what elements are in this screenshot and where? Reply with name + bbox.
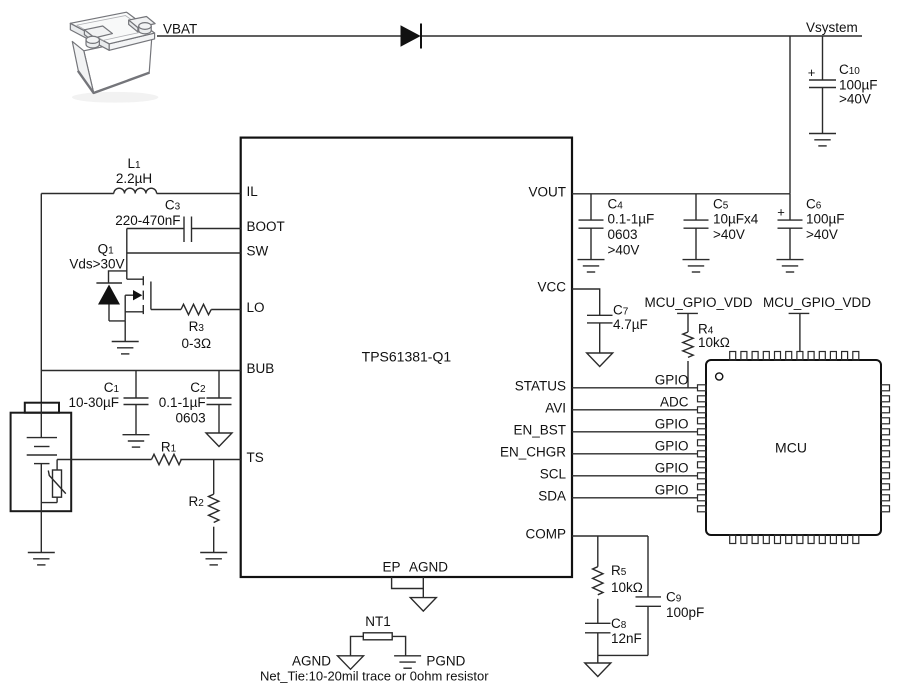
svg-text:SDA: SDA bbox=[538, 488, 566, 503]
wire SCL-GPIO bbox=[572, 475, 698, 477]
resistor R1 bbox=[57, 454, 241, 464]
transistor Q1 (N-MOSFET with body diode) bbox=[109, 271, 151, 342]
wire diode cathode to Vsystem bbox=[422, 35, 862, 37]
capacitor C8 bbox=[585, 623, 611, 655]
svg-text:PGND: PGND bbox=[426, 654, 465, 669]
wire EN_CHGR-GPIO bbox=[572, 453, 698, 455]
battery cell plates bbox=[27, 403, 57, 553]
svg-text:VBAT: VBAT bbox=[163, 22, 197, 37]
resistor R2 bbox=[209, 460, 219, 553]
ground AGND (NT1 left) bbox=[338, 656, 364, 670]
battery pack BT1 with thermistor bbox=[11, 403, 72, 512]
svg-text:COMP: COMP bbox=[526, 527, 567, 542]
ground AGND (COMP network) bbox=[585, 663, 611, 677]
svg-text:4.7µF: 4.7µF bbox=[613, 317, 648, 332]
capacitor C10 bbox=[809, 36, 836, 134]
svg-text:LO: LO bbox=[247, 300, 265, 315]
ground AGND (EP) bbox=[410, 598, 436, 612]
svg-text:10µFx4: 10µFx4 bbox=[713, 212, 759, 227]
wire left rail (battery+ to L1/BUB) bbox=[40, 194, 42, 404]
svg-text:100pF: 100pF bbox=[666, 605, 704, 620]
svg-text:10kΩ: 10kΩ bbox=[698, 335, 730, 350]
MCU top pins bbox=[730, 352, 859, 361]
ground (battery) bbox=[28, 553, 55, 565]
svg-text:SCL: SCL bbox=[540, 466, 567, 481]
MCU pin-1 marker bbox=[716, 373, 723, 380]
svg-text:SW: SW bbox=[247, 244, 269, 259]
svg-text:MCU_GPIO_VDD: MCU_GPIO_VDD bbox=[644, 295, 752, 310]
wire VCC bbox=[572, 289, 600, 315]
ground (Q1 source) bbox=[112, 342, 139, 354]
svg-text:>40V: >40V bbox=[608, 243, 640, 258]
svg-text:GPIO: GPIO bbox=[655, 483, 689, 498]
ground PGND (NT1 right) bbox=[394, 656, 421, 668]
wire SW net rail bbox=[126, 229, 128, 280]
capacitor C9 bbox=[636, 536, 662, 655]
svg-text:BUB: BUB bbox=[247, 361, 275, 376]
wire EN_BST-GPIO bbox=[572, 431, 698, 433]
svg-text:Vsystem: Vsystem bbox=[806, 20, 858, 35]
svg-text:0603: 0603 bbox=[176, 410, 206, 425]
svg-text:>40V: >40V bbox=[713, 227, 745, 242]
MCU right pins bbox=[881, 385, 890, 512]
battery icon (car battery, 3D) bbox=[70, 12, 158, 103]
svg-text:10-30µF: 10-30µF bbox=[68, 395, 119, 410]
svg-text:AGND: AGND bbox=[409, 560, 448, 575]
svg-text:BOOT: BOOT bbox=[247, 219, 285, 234]
capacitor C3 (BOOT-SW) bbox=[127, 217, 241, 243]
resistor R4 bbox=[683, 313, 693, 387]
svg-text:EN_CHGR: EN_CHGR bbox=[500, 444, 566, 459]
svg-text:>40V: >40V bbox=[806, 227, 838, 242]
wire Vsystem drop to VOUT rail bbox=[789, 36, 791, 194]
svg-text:2.2µH: 2.2µH bbox=[116, 171, 152, 186]
MCU body bbox=[706, 360, 881, 535]
ground AGND (C7) bbox=[587, 353, 613, 367]
svg-text:0.1-1µF: 0.1-1µF bbox=[159, 395, 206, 410]
ground AGND (C2) bbox=[206, 433, 232, 447]
ground (C10) bbox=[809, 134, 836, 146]
MCU bottom pins bbox=[730, 535, 859, 544]
svg-text:GPIO: GPIO bbox=[655, 417, 689, 432]
svg-text:GPIO: GPIO bbox=[655, 373, 689, 388]
IC U1 TPS61381-Q1 box bbox=[241, 138, 572, 577]
svg-text:220-470nF: 220-470nF bbox=[115, 213, 180, 228]
resistor R5 bbox=[593, 536, 603, 623]
wire EP/AGND tie bbox=[392, 577, 424, 598]
svg-text:+: + bbox=[808, 65, 816, 80]
svg-text:0-3Ω: 0-3Ω bbox=[181, 336, 211, 351]
resistor R3 bbox=[151, 304, 241, 314]
capacitor C4 bbox=[579, 194, 604, 260]
svg-text:MCU: MCU bbox=[775, 439, 807, 455]
wire SW pin bbox=[127, 252, 241, 254]
svg-text:AVI: AVI bbox=[545, 400, 566, 415]
ground (C6) bbox=[777, 260, 804, 272]
svg-text:0.1-1µF: 0.1-1µF bbox=[608, 212, 655, 227]
wire VDD to MCU top pin bbox=[799, 313, 801, 351]
wire COMP RC bottom join bbox=[598, 654, 648, 656]
capacitor C1 bbox=[124, 371, 149, 435]
svg-text:IL: IL bbox=[247, 184, 259, 199]
svg-text:STATUS: STATUS bbox=[515, 378, 566, 393]
inductor L1 bbox=[41, 188, 240, 193]
svg-text:EN_BST: EN_BST bbox=[513, 422, 566, 437]
svg-text:EP: EP bbox=[382, 560, 400, 575]
ground (C4) bbox=[578, 260, 605, 272]
svg-text:MCU_GPIO_VDD: MCU_GPIO_VDD bbox=[763, 295, 871, 310]
svg-text:VOUT: VOUT bbox=[528, 184, 566, 199]
ground (C1) bbox=[123, 435, 150, 447]
wire COMP bbox=[572, 535, 648, 537]
wire VBAT from battery to diode anode bbox=[157, 35, 401, 37]
wire SDA-GPIO bbox=[572, 497, 698, 499]
svg-text:>40V: >40V bbox=[839, 92, 871, 107]
svg-text:GPIO: GPIO bbox=[655, 461, 689, 476]
svg-text:+: + bbox=[777, 205, 785, 220]
ground (R2) bbox=[200, 553, 227, 565]
svg-text:100µF: 100µF bbox=[806, 212, 845, 227]
wire STATUS-GPIO bbox=[572, 387, 698, 389]
Q1 body arrow bbox=[133, 290, 142, 300]
capacitor C6 bbox=[778, 194, 803, 260]
svg-text:Net_Tie:10-20mil trace or 0ohm: Net_Tie:10-20mil trace or 0ohm resistor bbox=[260, 669, 489, 684]
svg-text:AGND: AGND bbox=[292, 654, 331, 669]
MCU left pins bbox=[698, 385, 707, 512]
svg-text:NT1: NT1 bbox=[365, 614, 391, 629]
svg-text:TPS61381-Q1: TPS61381-Q1 bbox=[362, 348, 452, 364]
diode D (reverse protection) bbox=[401, 24, 422, 49]
svg-text:10kΩ: 10kΩ bbox=[611, 580, 643, 595]
capacitor C2 bbox=[207, 371, 232, 434]
wire BUB bbox=[41, 370, 240, 372]
svg-text:ADC: ADC bbox=[660, 395, 689, 410]
wire VOUT rail bbox=[572, 193, 790, 195]
svg-text:12nF: 12nF bbox=[611, 631, 642, 646]
svg-text:100µF: 100µF bbox=[839, 78, 878, 93]
svg-text:TS: TS bbox=[247, 450, 264, 465]
svg-text:GPIO: GPIO bbox=[655, 439, 689, 454]
svg-text:VCC: VCC bbox=[537, 280, 566, 295]
thermistor RT bbox=[41, 460, 66, 503]
capacitor C5 bbox=[684, 194, 709, 260]
ground (C5) bbox=[683, 260, 710, 272]
Q1 body diode bbox=[96, 283, 122, 305]
capacitor C7 bbox=[587, 315, 613, 353]
wire AVI-ADC bbox=[572, 409, 698, 411]
svg-text:0603: 0603 bbox=[608, 227, 638, 242]
svg-text:Vds>30V: Vds>30V bbox=[69, 257, 124, 272]
